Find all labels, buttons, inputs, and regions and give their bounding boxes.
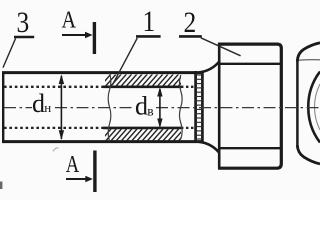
section hatch, top wall: [100, 74, 189, 87]
break line (wavy) left: [108, 73, 111, 141]
svg-text:d: d: [32, 89, 45, 118]
svg-text:2: 2: [184, 6, 197, 39]
centerline: [4, 107, 320, 109]
svg-text:н: н: [44, 100, 51, 115]
faint artifact squiggle: [53, 148, 59, 152]
label 1 leader: [113, 38, 138, 85]
label 2 leader: [201, 38, 241, 56]
nut flare fillet top: [199, 62, 219, 73]
dimension d_n bottom arrow: [59, 130, 64, 140]
pipe left end face: [2, 72, 4, 143]
section marker A top: bar: [93, 22, 96, 54]
pipe bore bottom edge (section, solid): [103, 127, 182, 130]
edge smudge bottom-left: [0, 182, 2, 190]
pipe bore top edge (section, solid): [103, 86, 182, 89]
section marker A bottom: bar: [93, 151, 96, 193]
label 3 leader: [3, 38, 16, 67]
svg-text:3: 3: [17, 6, 30, 39]
dimension d_n top arrow: [59, 74, 64, 84]
section marker A bottom: arrow: [66, 178, 86, 180]
dimension d_v bottom arrow: [157, 119, 162, 129]
svg-text:в: в: [147, 104, 153, 119]
hex head bottom chamfer line: [220, 147, 281, 149]
svg-text:1: 1: [143, 5, 156, 38]
end view chamfer arc: [308, 72, 320, 143]
thread collar rungs: [194, 75, 203, 139]
dimension d_v line: [159, 89, 161, 126]
end view inner faint arc: [315, 84, 320, 130]
pipe outer top edge: [2, 71, 201, 74]
thread collar right edge: [201, 71, 204, 142]
thread collar left edge: [194, 71, 197, 142]
label 2 shelf: [179, 35, 202, 38]
dimension d_v top arrow: [157, 87, 162, 97]
thread hidden line bottom left (dotted): [4, 127, 103, 129]
end view chamfer line: [299, 59, 320, 62]
end view left flat: [296, 60, 299, 148]
hex head outline: [218, 44, 281, 168]
svg-text:A: A: [66, 151, 80, 178]
dimension d_n line: [60, 76, 62, 139]
nut flare fillet bottom: [199, 142, 219, 153]
section hatch, bottom wall: [100, 129, 189, 142]
thread hidden line top right (dotted): [181, 86, 195, 88]
end view top corner: [297, 43, 320, 62]
label 3 shelf: [14, 36, 34, 39]
hex head top chamfer line: [220, 63, 281, 65]
svg-text:d: d: [135, 92, 148, 121]
thread hidden line bottom right (dotted): [181, 127, 195, 129]
section marker A top: arrow: [62, 34, 86, 36]
pipe outer bottom edge: [2, 140, 201, 143]
hex head left face edge: [218, 44, 221, 169]
svg-text:A: A: [62, 6, 77, 33]
thread hidden line top left (dotted): [4, 86, 103, 88]
label 1 shelf: [136, 35, 161, 38]
break line (wavy) right: [179, 75, 182, 139]
end view bottom corner: [297, 146, 320, 164]
